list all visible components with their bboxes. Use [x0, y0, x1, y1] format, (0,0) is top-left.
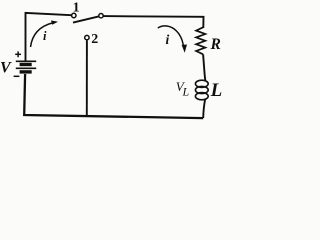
- svg-text:1: 1: [73, 0, 80, 15]
- svg-text:L: L: [182, 85, 190, 99]
- svg-text:i: i: [43, 29, 47, 43]
- svg-text:L: L: [210, 80, 222, 101]
- svg-text:R: R: [210, 36, 221, 53]
- svg-text:2: 2: [91, 32, 98, 47]
- svg-text:i: i: [166, 32, 170, 47]
- svg-text:V: V: [0, 60, 12, 77]
